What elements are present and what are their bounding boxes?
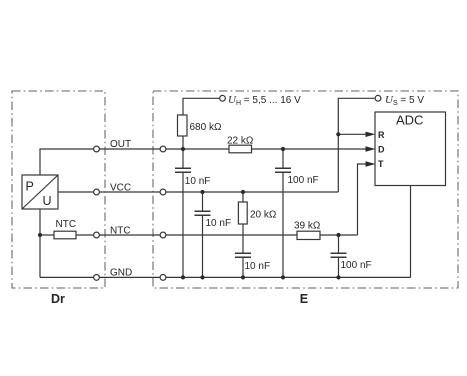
node OUT/100n junction [281, 147, 285, 151]
terminal US [375, 95, 381, 101]
capacitor 10nF C2 [195, 211, 211, 215]
wire R20k branch upper [242, 192, 244, 253]
node VCC/10n junction [200, 190, 204, 194]
connector VCC ECU side [160, 189, 166, 195]
wire C100n branch upper [282, 149, 284, 168]
svg-text:NTC: NTC [56, 219, 77, 230]
connector VCC sensor side [94, 189, 100, 195]
terminal UH [220, 95, 226, 101]
wire sensor NTC/GND riser [39, 209, 41, 277]
wire T pin path [358, 164, 368, 235]
resistor NTC [54, 231, 76, 239]
svg-text:NTC: NTC [110, 226, 131, 237]
wire C100n branch lower [282, 173, 284, 278]
svg-text:20 kΩ: 20 kΩ [250, 210, 277, 221]
svg-text:22 kΩ: 22 kΩ [227, 135, 254, 146]
connector OUT ECU side [160, 146, 166, 152]
wire GND row [40, 276, 411, 278]
resistor 22k [229, 145, 252, 153]
arrow into R [366, 132, 376, 137]
node R pin junction [336, 132, 340, 136]
arrow into D [366, 146, 376, 151]
wire R20k branch lower [242, 258, 244, 278]
wire C2 vertical lower [202, 216, 204, 278]
resistor 680k [178, 115, 188, 136]
capacitor 100nF C5 [331, 253, 347, 257]
connector NTC ECU side [160, 232, 166, 238]
capacitor 10nF C4 [235, 253, 251, 257]
node GND/C1 junction [181, 275, 185, 279]
svg-text:680 kΩ: 680 kΩ [190, 122, 222, 133]
svg-text:D: D [378, 145, 385, 155]
wire UH node vertical lower [182, 173, 184, 278]
wire R pin path [338, 133, 367, 135]
connector OUT sensor side [94, 146, 100, 152]
capacitor 10nF C1 [175, 168, 191, 172]
svg-text:R: R [378, 130, 385, 140]
svg-text:US = 5 V: US = 5 V [385, 94, 424, 107]
op ADC U1 [375, 112, 446, 186]
arrow into T [366, 161, 376, 166]
wire OUT row [40, 149, 368, 175]
resistor 39k [297, 231, 320, 239]
capacitor 100nF C3 [275, 168, 291, 172]
node OUT/680k junction [181, 147, 185, 151]
connector NTC sensor side [94, 232, 100, 238]
sensor cell P/U [22, 175, 58, 209]
wire NTC row [40, 234, 358, 236]
wire C100n T branch upper [338, 235, 340, 253]
node NTC junction sensor [38, 233, 42, 237]
resistor 20k [238, 202, 247, 224]
svg-text:T: T [378, 159, 384, 169]
svg-text:100 nF: 100 nF [288, 175, 319, 186]
node GND/C3 junction [281, 275, 285, 279]
sensor block border Dr [12, 91, 105, 288]
wire C100n T branch lower [338, 258, 340, 278]
svg-text:10 nF: 10 nF [206, 218, 232, 229]
node T/39k junction [336, 233, 340, 237]
wire US vertical [338, 98, 375, 192]
wire UH node vertical upper [183, 98, 220, 167]
node GND/C2 junction [200, 275, 204, 279]
node GND/C4 junction [241, 275, 245, 279]
svg-text:10 nF: 10 nF [245, 261, 271, 272]
wire ADC ground pin [410, 186, 412, 278]
svg-text:Dr: Dr [51, 292, 65, 306]
wire C2 vertical upper [202, 192, 204, 211]
ECU block border E [153, 91, 458, 288]
svg-text:ADC: ADC [396, 112, 423, 127]
connector GND ECU side [160, 275, 166, 281]
svg-text:P: P [26, 180, 34, 194]
svg-text:100 nF: 100 nF [341, 260, 372, 271]
node VCC/20k junction [241, 190, 245, 194]
svg-text:OUT: OUT [110, 139, 131, 150]
wire VCC row [58, 191, 338, 193]
svg-text:10 nF: 10 nF [185, 176, 211, 187]
svg-text:39 kΩ: 39 kΩ [294, 220, 321, 231]
svg-text:GND: GND [110, 268, 132, 279]
svg-text:U: U [43, 194, 52, 208]
connector GND sensor side [94, 275, 100, 281]
node GND/C5 junction [336, 275, 340, 279]
svg-text:E: E [300, 292, 308, 306]
svg-text:VCC: VCC [110, 182, 131, 193]
